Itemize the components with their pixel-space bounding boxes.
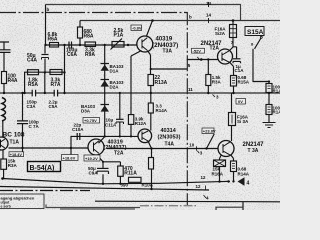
svg-text:C1A: C1A	[235, 68, 245, 73]
svg-text:D2A: D2A	[110, 85, 120, 90]
svg-text:b: b	[47, 7, 50, 12]
svg-text:0V: 0V	[238, 99, 243, 104]
svg-text:-52V: -52V	[193, 48, 202, 53]
svg-text:b: b	[189, 15, 192, 20]
svg-text:R15A: R15A	[238, 80, 250, 85]
svg-text:R4A: R4A	[8, 78, 18, 84]
svg-text:BC 108: BC 108	[3, 131, 25, 138]
svg-text:40314: 40314	[161, 128, 177, 134]
svg-text:11: 11	[188, 87, 193, 92]
svg-text:+0.75V: +0.75V	[84, 118, 97, 123]
svg-text:-0.8V: -0.8V	[132, 26, 142, 31]
svg-text:e serb: e serb	[1, 205, 11, 209]
svg-text:R3A: R3A	[8, 163, 18, 168]
svg-text:+18.4V: +18.4V	[10, 153, 23, 157]
svg-text:D1A: D1A	[110, 69, 120, 74]
svg-text:R11A: R11A	[124, 171, 137, 177]
svg-text:14: 14	[206, 1, 212, 6]
svg-text:+19.2V: +19.2V	[85, 156, 98, 161]
svg-text:C4A: C4A	[27, 58, 37, 64]
svg-text:C6A: C6A	[67, 52, 77, 58]
svg-text:R13A: R13A	[155, 80, 168, 86]
svg-text:(2N3053): (2N3053)	[158, 135, 181, 141]
svg-text:R7A: R7A	[51, 82, 61, 88]
svg-text:+18.6V: +18.6V	[63, 156, 76, 161]
svg-text:B-54(A): B-54(A)	[30, 165, 55, 172]
svg-text:C9A: C9A	[89, 171, 99, 176]
svg-text:T2A: T2A	[114, 151, 124, 157]
svg-text:R3A: R3A	[212, 80, 222, 85]
svg-text:12: 12	[201, 175, 207, 180]
svg-text:S15A: S15A	[247, 29, 264, 36]
svg-text:T 3A: T 3A	[248, 148, 259, 154]
svg-text:C5A: C5A	[49, 104, 59, 109]
svg-text:Si2A: Si2A	[215, 31, 226, 36]
svg-text:P1A: P1A	[114, 33, 124, 39]
svg-text:C 7A: C 7A	[29, 124, 40, 129]
svg-text:R1A: R1A	[273, 110, 281, 115]
svg-text:+23.8V: +23.8V	[203, 129, 216, 134]
svg-text:T1A: T1A	[10, 140, 20, 146]
svg-text:R9A: R9A	[85, 52, 95, 58]
svg-text:C3A: C3A	[27, 104, 37, 109]
svg-text:T3A: T3A	[163, 49, 173, 55]
svg-text:R5A: R5A	[28, 82, 38, 88]
svg-text:R8A: R8A	[84, 34, 94, 40]
svg-text:T2A: T2A	[210, 46, 220, 52]
svg-text:R12A: R12A	[135, 121, 147, 126]
svg-text:4: 4	[247, 181, 250, 187]
svg-text:R10A: R10A	[142, 182, 154, 187]
svg-text:T4A: T4A	[165, 142, 175, 148]
svg-text:14: 14	[206, 13, 212, 18]
svg-text:12: 12	[196, 184, 202, 189]
svg-text:C10A: C10A	[72, 127, 84, 132]
svg-text:10: 10	[189, 143, 195, 148]
svg-text:R16A: R16A	[212, 172, 224, 177]
svg-text:R1A: R1A	[273, 89, 281, 94]
svg-text:Si 3A: Si 3A	[237, 119, 249, 124]
svg-text:R14A: R14A	[156, 108, 168, 113]
svg-text:D3A: D3A	[81, 109, 91, 114]
svg-text:390: 390	[121, 183, 129, 188]
svg-text:C11A: C11A	[105, 123, 117, 128]
svg-text:R14A: R14A	[238, 172, 250, 177]
svg-text:R6A: R6A	[48, 37, 58, 43]
